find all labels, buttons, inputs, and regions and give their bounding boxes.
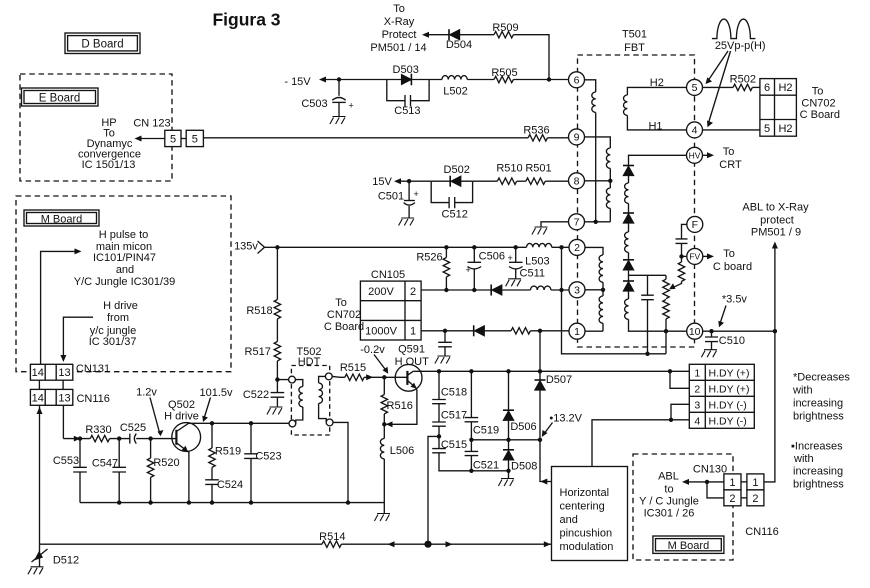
svg-text:R330: R330: [85, 424, 111, 436]
node Increases text: [791, 440, 844, 490]
svg-text:C519: C519: [473, 424, 499, 436]
svg-text:+: +: [466, 265, 471, 275]
connector CN123 pin 5 box (right): [186, 130, 203, 146]
svg-text:2: 2: [410, 286, 416, 298]
junction Q591 base node: [382, 375, 386, 379]
inductor L506: [380, 424, 414, 502]
svg-text:H.DY (+): H.DY (+): [709, 367, 750, 379]
pin HV: [687, 147, 703, 163]
inductor L502: [442, 76, 468, 98]
capacitor C501: [378, 181, 419, 218]
wire pin3 inner: [585, 289, 603, 291]
transformer T501 FBT dashed outline: [578, 29, 695, 348]
svg-text:13: 13: [58, 392, 70, 404]
svg-text:and: and: [560, 514, 578, 526]
wire C515 bottom row: [439, 453, 509, 471]
svg-text:6: 6: [574, 75, 580, 87]
capacitor C517: [432, 404, 467, 427]
junction C519 top: [469, 369, 473, 373]
junction D507 top: [538, 329, 542, 333]
D Board box: [65, 33, 140, 54]
svg-text:R515: R515: [340, 362, 366, 374]
svg-text:C553: C553: [53, 455, 79, 467]
svg-text:D508: D508: [511, 460, 537, 472]
junction C506 bottom: [472, 288, 476, 292]
M Board dashed outline (top left): [16, 196, 231, 372]
wire D504 to R509: [460, 34, 495, 36]
transistor Q591: [395, 364, 422, 391]
wire pin4 to connector: [703, 129, 760, 131]
svg-text:C518: C518: [441, 386, 467, 398]
junction C522 top: [275, 377, 279, 381]
svg-text:H.DY (-): H.DY (-): [709, 415, 747, 427]
pin FV: [687, 248, 703, 264]
wire Q502 collector rail to HDT: [189, 422, 290, 424]
svg-text:IC 1501/13: IC 1501/13: [82, 159, 136, 171]
junction D506 bottom: [506, 438, 510, 442]
svg-text:C521: C521: [473, 459, 499, 471]
junction cap at 1000V row: [443, 329, 447, 333]
svg-text:R536: R536: [523, 125, 549, 137]
diode D503: [393, 64, 419, 85]
junction R520 top: [148, 436, 152, 440]
junction divider crosses pin10 wire: [664, 329, 668, 333]
node 135v source chevron: [258, 241, 265, 254]
svg-text:5: 5: [192, 134, 198, 146]
svg-text:C board: C board: [713, 261, 752, 273]
terminal HDT top-left: [289, 376, 296, 383]
connector CN116 pin1 box: [747, 474, 764, 490]
ground below C501: [399, 218, 415, 226]
winding pin9 to pin8: [585, 137, 611, 148]
junction C553 top: [78, 436, 82, 440]
wire Q591 collector rail to H.DY: [413, 370, 689, 372]
svg-text:14: 14: [32, 392, 44, 404]
wire HDT bottom-right to ground rail: [333, 422, 348, 502]
junction rail R520: [148, 500, 152, 504]
connector CN123 pin 5 box (left): [165, 130, 181, 146]
wire left arrow on R514 line: [388, 541, 395, 547]
svg-text:CN116: CN116: [76, 393, 109, 405]
diode D502: [444, 164, 470, 187]
wire HV chain bottom to pin10 row: [629, 319, 687, 331]
svg-text:Q502: Q502: [168, 399, 195, 411]
wire CN130 pin2 tie: [707, 482, 724, 498]
ground at L506 bottom rail: [383, 503, 385, 514]
svg-text:+: +: [349, 101, 354, 111]
svg-text:To: To: [723, 248, 735, 260]
connector CN116 (top left): [30, 389, 72, 405]
svg-text:R516: R516: [387, 400, 413, 412]
capacitor C553: [53, 439, 87, 503]
svg-text:To: To: [812, 86, 824, 98]
svg-text:C Board: C Board: [800, 109, 840, 121]
svg-text:2: 2: [574, 242, 580, 254]
wire arrow into E board: [135, 136, 165, 142]
svg-text:9: 9: [574, 132, 580, 144]
svg-text:IC 301/37: IC 301/37: [89, 336, 137, 348]
winding HV section 2: [628, 223, 630, 232]
pin 4: [687, 122, 703, 138]
wire FBT bottom rail: [562, 247, 667, 353]
ground below C510: [701, 350, 717, 358]
wire L503 to pin2: [552, 246, 569, 248]
ground below 1000V filter cap: [435, 356, 451, 364]
wire 1000V row: [421, 330, 569, 332]
svg-text:PM501 / 9: PM501 / 9: [751, 227, 801, 239]
svg-text:15V: 15V: [372, 176, 392, 188]
connector CN131: [30, 364, 72, 380]
junction C518 top: [437, 369, 441, 373]
transistor Q502: [172, 423, 201, 503]
svg-text:HV: HV: [689, 150, 701, 160]
svg-text:R518: R518: [246, 305, 272, 317]
resistor R502: [730, 73, 756, 90]
svg-text:1: 1: [574, 326, 580, 338]
capacitor C522: [243, 380, 284, 407]
svg-text:8: 8: [574, 176, 580, 188]
svg-text:R517: R517: [245, 346, 271, 358]
svg-text:101.5v: 101.5v: [199, 387, 233, 399]
wire -0.2v arrow to base: [374, 355, 388, 374]
wire pin7 row: [585, 221, 611, 223]
wire FV tap: [682, 255, 687, 257]
svg-text:4: 4: [692, 125, 698, 137]
svg-text:ABL: ABL: [658, 470, 679, 482]
svg-text:H pulse to: H pulse to: [99, 229, 149, 241]
connector H.DY box: [689, 364, 754, 428]
capacitor C523: [244, 423, 281, 502]
svg-text:To: To: [335, 297, 347, 309]
svg-text:with: with: [793, 453, 814, 465]
E Board box: [22, 88, 99, 106]
junction C517-C515 tap: [438, 426, 440, 448]
svg-text:FV: FV: [689, 252, 700, 262]
svg-text:*Decreases: *Decreases: [793, 371, 850, 383]
pin 1: [569, 323, 585, 339]
wire R505 to pin 6: [513, 79, 568, 81]
wire 200V row: [421, 289, 569, 291]
capacitor C521: [465, 440, 500, 472]
wire arrow on base line: [74, 436, 81, 442]
wire to R510: [473, 180, 498, 182]
junction pin3 wire: [601, 288, 605, 292]
resistor R514: [319, 531, 345, 547]
svg-text:D503: D503: [393, 64, 419, 76]
wire R509 down to -15V rail: [513, 35, 549, 80]
svg-text:to: to: [664, 483, 673, 495]
node To C board text: [713, 248, 752, 273]
svg-text:Protect: Protect: [382, 29, 417, 41]
wire CN116 pin14 down to R514 rail with up arrow: [37, 405, 43, 544]
svg-text:- 15V: - 15V: [284, 76, 311, 88]
svg-text:protect: protect: [760, 214, 794, 226]
wire HV lead: [629, 155, 687, 165]
svg-text:D507: D507: [546, 374, 572, 386]
svg-text:R509: R509: [492, 22, 518, 34]
ground below C503: [330, 117, 346, 125]
svg-text:5: 5: [170, 134, 176, 146]
capacitor C506: [466, 247, 505, 290]
capacitor F-FV internal: [676, 224, 688, 256]
node H drive text: [89, 300, 138, 348]
node To CRT text: [719, 146, 742, 171]
wire ABL line with up arrow: [764, 242, 778, 482]
capacitor C512: [442, 197, 468, 221]
svg-text:M Board: M Board: [41, 213, 83, 225]
svg-text:H.DY (-): H.DY (-): [709, 399, 747, 411]
svg-text:R505: R505: [491, 67, 517, 79]
svg-text:-0.2v: -0.2v: [360, 344, 385, 356]
svg-text:C524: C524: [217, 479, 243, 491]
wire between CN123 boxes: [181, 138, 186, 140]
wire arrow label to pin5: [706, 51, 729, 84]
pin 10: [687, 323, 703, 339]
winding HV section 3: [628, 291, 630, 299]
junction R526 top: [444, 245, 448, 249]
svg-text:6: 6: [764, 82, 770, 94]
junction C510 top: [709, 329, 713, 333]
capacitor C525: [120, 422, 146, 443]
svg-text:PM501 / 14: PM501 / 14: [370, 42, 426, 54]
pin F: [687, 216, 703, 232]
svg-text:CN130: CN130: [693, 463, 727, 475]
junction C523 top: [249, 421, 253, 425]
svg-text:CN116: CN116: [745, 526, 778, 538]
svg-text:R519: R519: [215, 445, 241, 457]
resistor R518: [246, 247, 280, 319]
svg-text:Horizontal: Horizontal: [560, 487, 610, 499]
junction rail C523: [249, 500, 253, 504]
svg-text:1: 1: [752, 477, 758, 489]
node ABL to Y/C Jungle text: [639, 470, 699, 519]
wire arrow into pincushion box: [544, 541, 551, 547]
junction HDY row3-4 tie: [669, 418, 673, 422]
component D512 spark gap: [32, 544, 80, 567]
svg-text:D502: D502: [444, 164, 470, 176]
node 101.5v label with arrow: [199, 387, 233, 422]
transformer T502 HDT labels: [296, 346, 321, 368]
wire CN123 to R536: [203, 137, 528, 139]
svg-text:3: 3: [694, 399, 700, 411]
node *3.5v label with arrow: [718, 294, 747, 328]
E Board dashed outline: [20, 74, 172, 181]
wire CN131 to CN116 pin13: [62, 380, 64, 389]
junction C547 top: [117, 436, 121, 440]
wire R517 to HDT node: [277, 361, 288, 380]
M Board box: [24, 210, 99, 226]
svg-text:CN702: CN702: [801, 98, 835, 110]
svg-text:T501: T501: [622, 29, 647, 41]
wire CN130-CN116 pin2: [741, 497, 747, 499]
svg-text:135v: 135v: [234, 241, 258, 253]
svg-text:C501: C501: [378, 190, 404, 202]
svg-text:*3.5v: *3.5v: [722, 294, 748, 306]
svg-text:Figura 3: Figura 3: [212, 10, 280, 30]
terminal HDT bottom-right: [326, 419, 333, 426]
waveform 25Vp-p: [712, 19, 756, 38]
connector CN105 box: [360, 281, 421, 340]
winding pin6 to pin7 (primary): [585, 80, 596, 92]
junction rail C524: [210, 500, 214, 504]
winding HDT primary: [295, 380, 302, 387]
node To CN702 C Board text (CN105): [324, 297, 364, 333]
wire Q502 base line: [63, 438, 176, 440]
junction rail C547: [117, 500, 121, 504]
junction rail top at 135v: [559, 245, 563, 249]
svg-text:1: 1: [694, 367, 700, 379]
junction R514 line big node: [424, 541, 431, 548]
svg-text:CN105: CN105: [371, 269, 405, 281]
wire R514 line: [40, 543, 552, 545]
wire HDY row3: [671, 404, 689, 420]
wire R501 to pin 8: [545, 180, 568, 182]
resistor R526: [416, 247, 449, 290]
capacitor 1000V filter: [438, 331, 452, 356]
svg-text:C517: C517: [441, 410, 467, 422]
ground below C511: [506, 279, 522, 287]
wire L502 to R505: [467, 79, 494, 81]
pin 8: [569, 173, 585, 189]
node Q591 labels: [395, 344, 430, 368]
wire R515 to Q591 base with arrow: [364, 374, 407, 380]
wire H drive arrow into CN131 pin13: [60, 317, 93, 362]
svg-text:200V: 200V: [368, 286, 394, 298]
capacitor C518: [432, 371, 467, 403]
wire D507 to pincushion box with arrow: [540, 440, 552, 485]
junction D508 ground node: [506, 469, 510, 473]
resistor R517: [245, 319, 281, 361]
winding pin8 to pin7: [609, 181, 611, 188]
svg-text:H2: H2: [778, 123, 792, 135]
connector to CN702 box: [760, 79, 797, 137]
wire Q591 emitter: [384, 388, 417, 427]
M Board box (bottom right): [653, 536, 724, 553]
svg-text:M Board: M Board: [668, 540, 710, 552]
resistor R501: [525, 162, 551, 184]
svg-text:CRT: CRT: [719, 159, 742, 171]
block Horizontal centering box: [552, 467, 628, 561]
node H pulse text: [74, 229, 176, 288]
svg-text:1.2v: 1.2v: [136, 386, 157, 398]
svg-text:H2: H2: [650, 77, 664, 89]
capacitor C503: [301, 80, 353, 117]
capacitor C510: [705, 331, 745, 350]
svg-text:H1: H1: [648, 120, 662, 132]
terminal HDT bottom-left: [289, 420, 296, 427]
wire -15V rail with left arrow: [319, 77, 387, 83]
junction D506 top: [506, 369, 510, 373]
inductor 200V row: [531, 286, 551, 290]
svg-text:D506: D506: [510, 421, 536, 433]
diode HV rectifier 2: [628, 203, 630, 213]
wire CN131 pin14 to H pulse arrow: [41, 248, 82, 364]
diode HV rectifier 3: [628, 252, 630, 259]
node ABL to X-Ray protect text: [742, 202, 809, 239]
resistor 1000V row: [511, 328, 530, 334]
wire FV arrow to C board: [703, 253, 714, 259]
node *Decreases text: [792, 371, 850, 422]
node 1.2v label with arrow: [136, 386, 163, 436]
svg-text:3: 3: [574, 285, 580, 297]
svg-text:•13.2V: •13.2V: [549, 412, 582, 424]
wire 135v rail to pin 2: [265, 246, 527, 248]
diode D507: [535, 331, 573, 440]
resistor R330: [85, 424, 111, 442]
svg-text:R526: R526: [416, 252, 442, 264]
svg-text:E Board: E Board: [39, 92, 81, 104]
svg-text:FBT: FBT: [624, 42, 645, 54]
wire CN130-CN116 pin1: [741, 481, 747, 483]
svg-text:1000V: 1000V: [365, 325, 397, 337]
svg-text:25Vp-p(H): 25Vp-p(H): [715, 40, 766, 52]
wire R502 to connector: [752, 86, 760, 88]
node 13.2V label with arrow: [542, 412, 583, 437]
resistor R505: [491, 67, 517, 83]
svg-text:2: 2: [694, 383, 700, 395]
wire pin7 to ground: [541, 222, 569, 227]
svg-text:2: 2: [752, 493, 758, 505]
wire right arrow on R514 line: [446, 541, 453, 547]
junction C503 top: [337, 77, 341, 81]
svg-text:CN 123: CN 123: [133, 118, 170, 130]
junction rail HDT return: [346, 500, 350, 504]
junction internal cap to rail: [645, 352, 649, 356]
svg-text:with: with: [792, 384, 813, 396]
junction R519 top: [210, 421, 214, 425]
wire pin5 to R502: [703, 86, 734, 88]
node To X-Ray Protect PM501/14 text: [370, 3, 426, 54]
wire 15V rail with left arrow: [394, 178, 431, 184]
svg-text:C515: C515: [441, 439, 467, 451]
junction R526 bottom: [444, 288, 448, 292]
resistor R515: [340, 362, 366, 381]
node HP to dynamic convergence text: [78, 117, 141, 171]
svg-text:F: F: [692, 219, 698, 231]
junction HDY row2 tie: [668, 369, 672, 373]
svg-text:Y/C Jungle IC301/39: Y/C Jungle IC301/39: [74, 276, 176, 288]
capacitor C519: [465, 371, 500, 440]
svg-text:C523: C523: [255, 451, 281, 463]
wire HDY row4: [592, 420, 689, 467]
svg-text:C503: C503: [301, 98, 327, 110]
svg-text:brightness: brightness: [793, 478, 844, 490]
svg-text:increasing: increasing: [793, 397, 843, 409]
wire pin10 to ABL line: [703, 330, 775, 332]
svg-text:7: 7: [574, 217, 580, 229]
svg-text:CN131: CN131: [76, 363, 110, 375]
junction rail Q502 emitter: [187, 500, 191, 504]
svg-text:+: +: [414, 189, 419, 199]
ground at pin7: [532, 227, 548, 235]
connector CN116 pin2 box: [747, 490, 764, 506]
wire R510 to R501: [517, 180, 526, 182]
diode D504: [446, 29, 472, 51]
svg-text:Y / C Jungle: Y / C Jungle: [639, 495, 699, 507]
svg-text:D504: D504: [446, 39, 472, 51]
wire HV mid tap: [628, 270, 630, 281]
junction ABL at pin10 row: [773, 329, 777, 333]
wire HDY row2: [670, 371, 689, 388]
svg-text:2: 2: [729, 493, 735, 505]
capacitor FBT internal: [641, 275, 654, 354]
wire HV arrow to CRT: [703, 152, 714, 158]
node To CN702 C Board text: [800, 86, 840, 122]
diode D508: [503, 440, 537, 479]
svg-text:10: 10: [689, 326, 701, 338]
winding pin2 to pin3: [585, 247, 603, 255]
resistor R519: [209, 423, 241, 480]
